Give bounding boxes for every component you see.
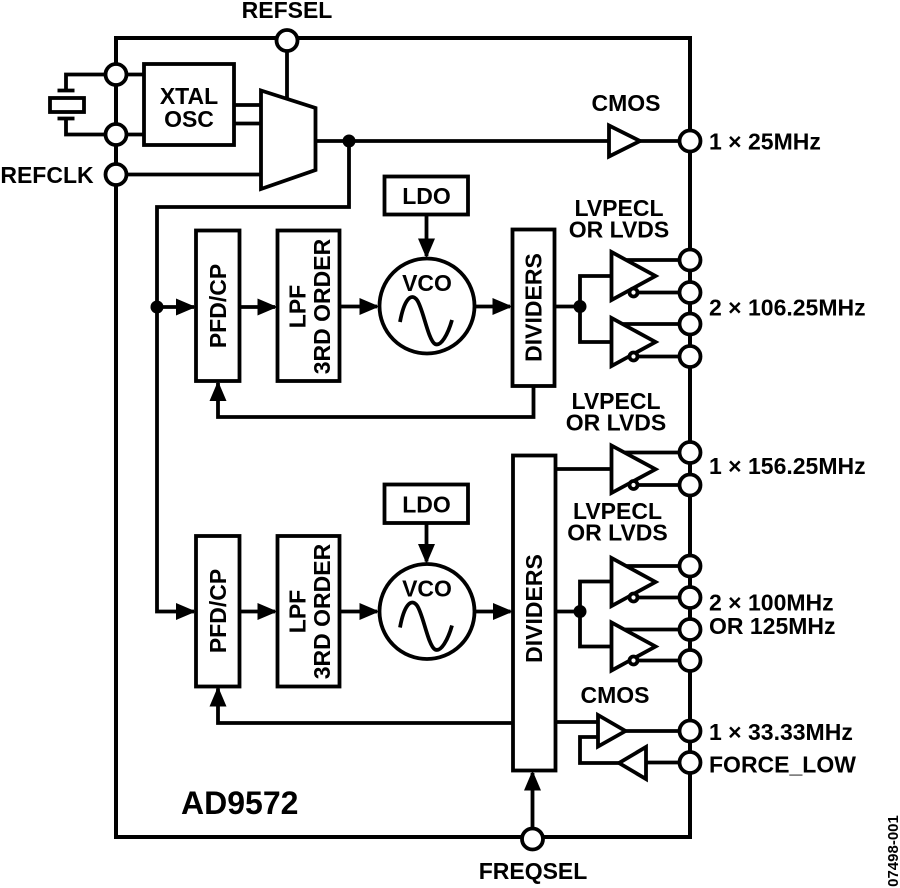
svg-text:FORCE_LOW: FORCE_LOW: [709, 752, 856, 778]
pin OUT1B-: [680, 346, 701, 367]
wire PFD2 to LPF2: [240, 610, 276, 614]
svg-text:1 × 25MHz: 1 × 25MHz: [709, 129, 821, 155]
svg-text:DIVIDERS: DIVIDERS: [521, 554, 547, 663]
wire crystal bottom leg: [66, 119, 116, 135]
svg-text:OR 125MHz: OR 125MHz: [709, 613, 836, 639]
pin REFSEL: [277, 30, 298, 51]
arrowhead into DIVIDERS1: [493, 298, 513, 315]
wire PFD1 to LPF1: [240, 305, 276, 309]
arrowhead into LPF1: [258, 299, 278, 316]
bubble LVPECL1b: [630, 353, 638, 361]
svg-text:REFCLK: REFCLK: [0, 162, 94, 188]
wire DIVIDERS2 output to driver node: [556, 610, 581, 614]
wire CMOS1 output: [640, 139, 690, 143]
svg-text:REFSEL: REFSEL: [242, 0, 333, 23]
svg-text:1 × 33.33MHz: 1 × 33.33MHz: [709, 719, 853, 745]
pin OUT2-: [680, 475, 701, 496]
wire DIVIDERS2 to CMOS2 buffer: [556, 720, 599, 724]
arrowhead into VCO1: [360, 298, 380, 315]
pin OUT3A-: [680, 587, 701, 608]
svg-text:AD9572: AD9572: [181, 785, 298, 821]
wire driver bracket PLL2: [580, 582, 612, 647]
crystal top plate: [58, 89, 75, 93]
svg-text:CMOS: CMOS: [592, 90, 661, 116]
svg-text:CMOS: CMOS: [581, 682, 650, 708]
arrowhead into LPF2: [258, 603, 278, 620]
wire DIVIDERS1 output to driver node: [555, 305, 581, 309]
pin OUT1B+: [680, 314, 701, 335]
wire feedback PLL2: [218, 689, 513, 724]
wire mux output to CMOS buffer: [315, 139, 609, 143]
wire LVPECL1a -out: [634, 291, 691, 295]
wire LVPECL3a +out: [620, 564, 690, 568]
svg-text:FREQSEL: FREQSEL: [479, 858, 588, 884]
pin OUT 33.33MHz: [680, 721, 701, 742]
wire LVPECL2 -out: [634, 483, 691, 487]
driver LVPECL2: [612, 446, 656, 494]
arrowhead feedback1 into PFD1: [210, 381, 227, 401]
pin XTAL2: [106, 124, 127, 145]
pin OUT1A-: [680, 282, 701, 303]
wire XTAL pin1 to osc: [116, 73, 144, 77]
inverter FORCE_LOW: [619, 747, 646, 779]
wire LVPECL3a -out: [634, 596, 691, 600]
wire XTAL pin2 to osc: [116, 133, 144, 137]
driver LVPECL1b: [612, 318, 656, 366]
wire FREQSEL to DIVIDERS2: [531, 773, 535, 829]
svg-text:2 × 106.25MHz: 2 × 106.25MHz: [709, 295, 866, 321]
svg-text:07498-001: 07498-001: [885, 815, 900, 887]
pin FORCE_LOW: [680, 752, 701, 773]
bubble LVPECL1a: [630, 289, 638, 297]
arrowhead FREQSEL into DIVIDERS2: [524, 771, 541, 791]
svg-text:1 × 156.25MHz: 1 × 156.25MHz: [709, 453, 866, 479]
pin OUT3B+: [680, 619, 701, 640]
arrowhead LDO2 into VCO2: [418, 544, 435, 564]
block XTAL OSC: [144, 64, 234, 145]
svg-text:LDO: LDO: [402, 183, 451, 209]
node: mux output junction: [343, 135, 356, 148]
wire REFCLK to mux: [116, 173, 261, 177]
svg-text:OSC: OSC: [164, 106, 214, 132]
block LPF 3RD ORDER 2: [278, 536, 340, 687]
pin OUT3A+: [680, 556, 701, 577]
wire feedback PLL1: [218, 383, 534, 417]
wire LDO1 to VCO1: [425, 215, 429, 257]
wire REFSEL stub to mux: [285, 41, 289, 100]
wire DIVIDERS2 to LVPECL2 driver: [556, 467, 612, 471]
svg-text:VCO: VCO: [402, 576, 452, 602]
svg-text:OR LVDS: OR LVDS: [569, 217, 670, 243]
wire VCO2 to DIVIDERS2: [475, 610, 511, 614]
svg-text:LDO: LDO: [402, 492, 451, 518]
wire FORCE_LOW route to CMOS2 enable: [580, 737, 619, 763]
block PFD/CP 2: [196, 536, 240, 687]
driver LVPECL3b: [612, 623, 656, 671]
mux reference select: [261, 91, 316, 190]
crystal bottom plate: [58, 117, 75, 121]
node: driver junction PLL1: [574, 300, 587, 313]
wire crystal top leg: [66, 75, 116, 91]
pin OUT 25MHz: [680, 131, 701, 152]
pin FREQSEL: [522, 829, 543, 850]
arrowhead into DIVIDERS2: [493, 603, 513, 620]
arrowhead feedback2 into PFD2: [210, 687, 227, 707]
pin OUT2+: [680, 442, 701, 463]
pin OUT1A+: [680, 250, 701, 271]
svg-text:LPF: LPF: [285, 590, 311, 633]
node: driver junction PLL2: [574, 605, 587, 618]
wire LVPECL1b -out: [634, 355, 691, 359]
arrowhead LDO1 into VCO1: [418, 239, 435, 259]
svg-text:2 × 100MHz: 2 × 100MHz: [709, 590, 834, 616]
buffer CMOS1: [609, 126, 640, 157]
wire CMOS2 output: [626, 729, 691, 733]
svg-text:OR LVDS: OR LVDS: [567, 520, 668, 546]
arrowhead into PFD1: [176, 299, 196, 316]
pin REFCLK: [106, 164, 127, 185]
svg-text:VCO: VCO: [402, 270, 452, 296]
wire into PFD1: [157, 305, 194, 309]
wire LVPECL2 +out: [620, 451, 690, 455]
wire VCO1 to DIVIDERS1: [475, 305, 511, 309]
block PFD/CP 1: [196, 231, 240, 382]
block LDO 2: [385, 485, 469, 524]
arrowhead into PFD2: [176, 603, 196, 620]
bubble LVPECL3b: [630, 657, 638, 665]
svg-text:3RD ORDER: 3RD ORDER: [309, 238, 335, 374]
wire reference drop to both PLLs: [157, 141, 349, 612]
svg-text:3RD ORDER: 3RD ORDER: [309, 543, 335, 679]
wire LDO2 to VCO2: [425, 523, 429, 562]
bubble LVPECL2: [630, 481, 638, 489]
wire LVPECL1b +out: [620, 322, 690, 326]
svg-text:PFD/CP: PFD/CP: [205, 569, 231, 653]
wire LVPECL3b +out: [620, 628, 690, 632]
crystal Y1 body: [50, 98, 84, 112]
wire LPF2 to VCO2: [340, 610, 378, 614]
arrowhead into VCO2: [360, 603, 380, 620]
driver LVPECL3a: [612, 558, 656, 606]
oscillator VCO2: [380, 564, 475, 659]
svg-text:LPF: LPF: [285, 285, 311, 328]
wire FORCE_LOW input: [646, 761, 690, 765]
svg-text:OR LVDS: OR LVDS: [566, 410, 667, 436]
wire driver bracket PLL1: [580, 276, 612, 342]
wire osc to mux lower: [234, 122, 261, 126]
buffer CMOS2: [598, 715, 626, 747]
pin XTAL1: [106, 64, 127, 85]
node: PFD1 tap junction: [151, 301, 164, 314]
driver LVPECL1a: [612, 252, 656, 300]
bubble LVPECL3a: [630, 594, 638, 602]
wire LVPECL1a +out: [620, 258, 690, 262]
chip boundary: [116, 38, 690, 837]
pin OUT3B-: [680, 650, 701, 671]
oscillator VCO1: [380, 259, 475, 354]
block DIVIDERS 1: [513, 230, 555, 387]
wire LPF1 to VCO1: [340, 305, 378, 309]
block DIVIDERS 2: [513, 456, 556, 771]
block LDO 1: [385, 177, 469, 215]
svg-text:PFD/CP: PFD/CP: [205, 264, 231, 348]
svg-text:DIVIDERS: DIVIDERS: [521, 253, 547, 362]
wire LVPECL3b -out: [634, 659, 691, 663]
wire osc to mux upper: [234, 103, 261, 107]
block LPF 3RD ORDER 1: [278, 231, 340, 382]
